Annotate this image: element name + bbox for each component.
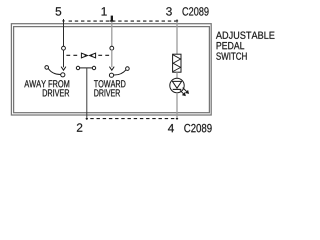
switch SW2 label line 2: "DRIVER" (94, 89, 120, 96)
switch SW2 blade arc (114, 70, 126, 75)
pin 3 tick at connector (176, 20, 178, 22)
wire resistor to LED (gray) (176, 72, 178, 78)
switch SW1 pivot circle (61, 73, 65, 77)
wire pin 1 (gray) (111, 21, 113, 47)
switch SW2 fixed contact circle on pin 1 (110, 46, 114, 50)
pin 2 tick at connector (86, 118, 88, 120)
wire pin 1 lower segment (111, 50, 113, 67)
switch SW1 blade arc (48, 69, 61, 75)
switch SW2 pivot circle (109, 73, 113, 77)
pin label 4: "4" (168, 124, 174, 132)
LED D1 cathode bar (173, 88, 182, 90)
switch SW1 fixed contact circle on pin 5 (62, 46, 66, 50)
switch SW1 label line 1: "AWAY FROM" (24, 80, 69, 87)
wire joining common contacts (80, 67, 93, 69)
pin label 2: "2" (77, 123, 82, 131)
connector label C2089 top: "C2089" (182, 7, 208, 15)
wire pin 5 lower segment (63, 50, 65, 67)
connector C2089 top dashed line (69, 20, 178, 22)
pin label 1: "1" (102, 7, 107, 15)
title line 3: "SWITCH" (216, 52, 246, 59)
LED D1 circle (170, 78, 184, 92)
mechanical link arrow left-pointing (90, 53, 96, 58)
switch SW1 side contact circle (45, 66, 49, 70)
switch SW1 label line 2: "DRIVER" (43, 89, 69, 96)
LED D1 emission arrow 1 (183, 88, 187, 92)
connector C2089 bottom dashed line (90, 118, 177, 120)
center common contact circle left (76, 66, 79, 69)
mechanical link arrow right-pointing (81, 53, 87, 58)
switch SW2 label line 1: "TOWARD" (94, 80, 126, 87)
pin 4 tick at connector (176, 118, 178, 120)
connector label C2089 bottom: "C2089" (184, 124, 211, 132)
center common contact circle right (92, 66, 95, 69)
wire pin 4 (gray) (176, 93, 178, 120)
pin label 3: "3" (166, 7, 172, 15)
component box: adjustable pedal switch (double gray border) (11, 24, 211, 115)
title line 2: "PEDAL" (217, 42, 245, 49)
wire pin 2 (dark) (86, 68, 88, 120)
mechanical link dashed line (66, 54, 79, 56)
LED D1 emission arrow 2 (180, 90, 183, 93)
switch SW2 arrowhead (open V) (109, 67, 114, 71)
pin label 5: "5" (56, 7, 62, 15)
wire pin 3 (gray) (176, 19, 178, 54)
LED D1 triangle (172, 81, 181, 88)
resistor R1 box (173, 54, 181, 72)
switch SW2 side contact circle (126, 67, 130, 71)
title line 1: "ADJUSTABLE" (216, 32, 275, 39)
pin 1 arrow at connector (filled, up) (111, 16, 113, 21)
wire pin 5 (black) (63, 19, 65, 46)
resistor R1 zigzag (173, 55, 181, 72)
pin 5 tick at connector (62, 20, 64, 22)
switch SW1 arrowhead (open V) (61, 67, 66, 71)
